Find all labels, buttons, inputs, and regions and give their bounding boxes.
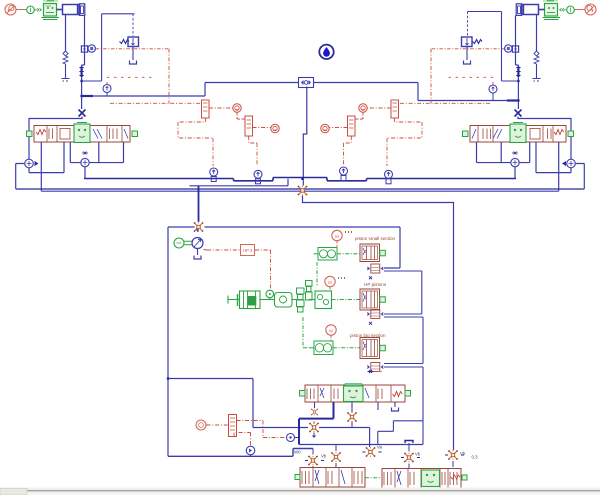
bus y=178.5 with sensors <box>84 178 516 181</box>
wire cylinder head-side down (main) <box>82 16 85 97</box>
torque node circle <box>266 290 274 299</box>
pressure sensor PS3 <box>340 167 348 181</box>
ground bracket <box>62 79 70 82</box>
cA wiring <box>16 164 25 189</box>
valve interconnect wiring <box>384 271 422 314</box>
head side main wire <box>516 16 519 101</box>
center vertical down <box>303 87 307 186</box>
flow meter pair <box>81 45 95 52</box>
hydraulic cylinder <box>63 4 85 16</box>
pressure sensor PS4 <box>385 170 393 184</box>
wire X to valve port <box>29 117 82 132</box>
tank T2 <box>464 61 471 65</box>
pump P1 <box>192 229 203 249</box>
mass with friction (green block) <box>42 1 60 20</box>
rod side wire down to spring-damper <box>536 14 538 51</box>
red control valve <box>229 415 237 437</box>
green dash link <box>365 477 382 479</box>
svg-text:Vb: Vb <box>321 454 327 459</box>
tank T1 <box>130 61 137 65</box>
throttle X left <box>81 96 83 109</box>
junction star J7 (Vb) <box>331 452 341 462</box>
mass block <box>543 1 561 20</box>
metering valve 1 <box>360 244 380 262</box>
pressure sensor PS1 <box>210 168 218 182</box>
check valve circle cB right <box>511 158 519 166</box>
comparator comp1 <box>202 100 210 118</box>
flow meter pair right <box>505 45 519 52</box>
mini check valve CV1 <box>367 264 383 273</box>
spring-damper load <box>63 51 68 78</box>
svg-text:Vb: Vb <box>415 452 421 457</box>
signal source red circle <box>585 4 596 15</box>
signal gain G1 <box>233 104 241 112</box>
green port connectors <box>27 131 33 137</box>
bus y=191.2 <box>41 190 558 192</box>
bus y=189 <box>16 188 585 190</box>
branch to pump <box>190 179 289 186</box>
svg-text:HP.3: HP.3 <box>243 248 253 253</box>
left valve ports down <box>40 142 42 191</box>
mass label strip <box>43 0 58 2</box>
v1 top signal dash <box>107 77 152 84</box>
svg-text:W0: W0 <box>294 450 301 455</box>
pilot tap wire <box>82 14 135 81</box>
relief valve R1 <box>120 37 139 47</box>
tank T3 under pump <box>194 256 201 260</box>
sensor1 feed dash <box>178 118 213 166</box>
sig to hyd circle <box>287 434 295 442</box>
block B <box>382 469 461 489</box>
ports below middle block <box>314 402 316 408</box>
signal circle s1 <box>209 107 233 109</box>
sensor2 feed dash <box>249 136 257 166</box>
signal to relief valve <box>96 48 170 50</box>
green speed transducer <box>27 6 35 14</box>
comparator comp2r <box>348 116 356 136</box>
pump feed from bus <box>198 186 200 222</box>
relief valve R2 <box>462 37 483 47</box>
svg-text:M: M <box>328 280 332 285</box>
svg-text:M: M <box>329 329 333 334</box>
oil properties icon <box>319 45 333 59</box>
svg-text:piston small section: piston small section <box>355 236 396 241</box>
comparator comp1r <box>391 100 399 118</box>
svg-text:0.3: 0.3 <box>472 455 479 460</box>
electric motor green <box>174 238 184 248</box>
relief pilot dash left <box>110 49 202 104</box>
main line with check section <box>80 67 82 78</box>
junction star J4 <box>347 412 357 422</box>
pilot tap wire right <box>468 12 519 82</box>
thick hook wire <box>299 402 334 445</box>
check valve circle cA left <box>25 159 39 168</box>
signal box HP3 <box>241 245 255 256</box>
wire cylinder rod-side down <box>65 14 67 51</box>
throttle X right <box>517 101 519 110</box>
servo circle 2 <box>246 446 255 455</box>
mini check valve CV3 <box>367 363 383 372</box>
signal gain G4 <box>321 124 329 132</box>
red setpoint circles <box>332 230 352 240</box>
green center section <box>74 123 90 143</box>
svg-text:Vb: Vb <box>460 451 466 456</box>
junction star J10 (Vb 0.3) <box>448 450 458 460</box>
pump displacement signal <box>204 249 241 252</box>
mechanical train (green) <box>228 296 240 304</box>
gear stack <box>297 281 313 313</box>
svg-text:HP pistons: HP pistons <box>364 282 387 287</box>
junction star J8 (Va) <box>366 447 376 457</box>
red circle source <box>196 420 206 430</box>
main line to center <box>82 83 299 97</box>
right valve ports down <box>558 142 560 191</box>
orifice comp center <box>299 78 314 88</box>
cylinder right <box>516 4 538 16</box>
metering valve 2 <box>360 289 380 310</box>
junction star J5 <box>309 423 319 433</box>
check valve circle cA right <box>562 159 575 168</box>
mini check valve CV2 <box>367 310 383 319</box>
signal gain G3 <box>359 104 367 112</box>
pump pair big section <box>310 341 334 355</box>
pump pair small section <box>314 248 338 261</box>
junction star J9 (Vb) <box>404 453 414 463</box>
signal gain G2 <box>271 124 279 132</box>
box outline <box>168 227 195 456</box>
svg-text:Va: Va <box>377 445 383 450</box>
pressure sensor PS2 <box>254 170 262 184</box>
junction star J2 (pump inlet) <box>194 222 204 232</box>
tank under relief <box>132 47 134 61</box>
metering valve 3 <box>360 338 380 359</box>
wire <box>16 9 27 11</box>
block A <box>300 468 365 488</box>
junction star J1 <box>298 186 308 196</box>
pressure transducer v1 <box>103 85 111 97</box>
check valve circle cB left <box>81 158 89 166</box>
svg-text:M: M <box>335 234 339 239</box>
tiny blue arrows around stars <box>305 460 324 462</box>
hook from x423 to bottom line <box>378 421 423 445</box>
main line center right <box>314 83 519 101</box>
bottom main lines <box>168 449 313 457</box>
mass label strip right <box>543 0 558 2</box>
tank T4 under selector block <box>392 408 399 412</box>
signal source (motion) red circle <box>5 4 16 15</box>
y 444.5 line <box>299 444 423 446</box>
link s1-comp2 <box>237 113 245 120</box>
pressure transducer v2 <box>489 85 497 101</box>
comparator comp2 <box>245 116 253 136</box>
junction star J6 (W0) <box>308 456 318 466</box>
green transducer <box>567 6 575 14</box>
rod <box>57 9 63 11</box>
